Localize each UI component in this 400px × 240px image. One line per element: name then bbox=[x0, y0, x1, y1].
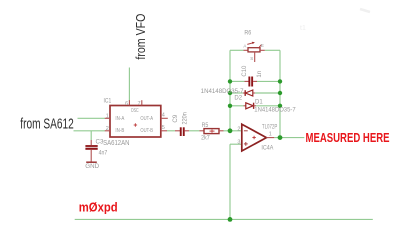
svg-text:MEASURED HERE: MEASURED HERE bbox=[306, 131, 390, 145]
svg-text:1N4148DO35-7: 1N4148DO35-7 bbox=[201, 89, 244, 95]
svg-text:A: A bbox=[243, 43, 246, 48]
svg-text:R6: R6 bbox=[244, 30, 251, 36]
svg-text:6: 6 bbox=[125, 101, 128, 107]
svg-text:2k7: 2k7 bbox=[201, 135, 210, 141]
svg-text:D1: D1 bbox=[255, 100, 263, 106]
svg-text:4n7: 4n7 bbox=[99, 151, 108, 157]
svg-text:C10: C10 bbox=[241, 65, 248, 77]
svg-text:t1: t1 bbox=[300, 25, 306, 32]
svg-text:IN-B: IN-B bbox=[115, 128, 124, 134]
svg-text:E: E bbox=[261, 43, 264, 48]
svg-text:1: 1 bbox=[269, 131, 272, 137]
svg-text:2: 2 bbox=[237, 126, 240, 132]
svg-text:OSC: OSC bbox=[131, 108, 139, 114]
svg-text:1: 1 bbox=[106, 113, 109, 119]
svg-text:from VFO: from VFO bbox=[133, 14, 148, 60]
svg-text:7: 7 bbox=[138, 101, 141, 107]
svg-text:S: S bbox=[250, 56, 253, 61]
svg-text:1n: 1n bbox=[256, 70, 263, 77]
svg-text:from SA612: from SA612 bbox=[20, 117, 74, 133]
svg-text:C9: C9 bbox=[172, 114, 179, 122]
svg-text:GND: GND bbox=[85, 163, 99, 170]
svg-text:SA612AN: SA612AN bbox=[103, 140, 129, 147]
svg-text:4: 4 bbox=[162, 113, 165, 119]
svg-text:2: 2 bbox=[106, 126, 109, 132]
svg-text:OUT-B: OUT-B bbox=[140, 128, 153, 134]
svg-text:1N4148DO35-7: 1N4148DO35-7 bbox=[254, 108, 296, 114]
svg-text:mØxpd: mØxpd bbox=[79, 199, 118, 214]
svg-text:R5: R5 bbox=[202, 123, 209, 129]
svg-text:OUT-A: OUT-A bbox=[140, 116, 153, 122]
svg-text:3: 3 bbox=[237, 140, 240, 146]
svg-text:5: 5 bbox=[162, 125, 165, 131]
svg-text:220n: 220n bbox=[181, 112, 188, 125]
svg-text:TL072P: TL072P bbox=[262, 124, 277, 130]
svg-text:IN-A: IN-A bbox=[115, 116, 124, 122]
svg-text:D2: D2 bbox=[234, 95, 242, 101]
svg-text:IC1: IC1 bbox=[104, 97, 112, 104]
svg-text:IC4A: IC4A bbox=[261, 146, 273, 152]
